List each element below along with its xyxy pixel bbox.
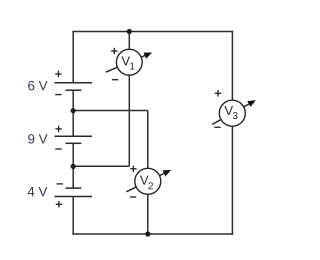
voltmeter V1 circle [116, 49, 142, 75]
voltmeter V3 circle [219, 100, 245, 126]
battery 4 V [55, 188, 93, 196]
voltmeter V1 arrow line [106, 55, 146, 72]
voltmeter V3 minus sign [214, 126, 220, 128]
wire left bus segment between 6 V and 9 V [72, 90, 74, 136]
voltmeter V2 label [140, 176, 149, 185]
wire bottom bus [72, 233, 233, 235]
battery 6 V value label [28, 81, 47, 90]
voltmeter V3 plus sign [215, 90, 221, 96]
voltmeter V1 plus sign [111, 48, 117, 54]
voltmeter V1 [106, 48, 152, 80]
voltmeter V3 [212, 90, 256, 127]
voltmeter V2 arrowhead [163, 170, 172, 177]
node junction dot between 6 V and 9 V [71, 108, 76, 113]
battery 4 V value label [28, 187, 48, 196]
voltmeter V2 [126, 166, 171, 197]
battery 9 V value label [28, 134, 47, 143]
wire left bus segment between 9 V and 4 V [72, 143, 74, 188]
voltmeter V1 arrowhead [144, 53, 153, 59]
battery 6 V minus sign [55, 94, 61, 96]
voltmeter V2 circle [135, 168, 161, 194]
battery 9 V [55, 136, 93, 143]
wire V1 branch horizontal to node between 9 V and 4 V [73, 165, 129, 167]
battery 6 V [55, 83, 93, 90]
battery 9 V minus sign [55, 148, 61, 150]
wire left bus lower segment [72, 197, 74, 235]
voltmeter V2 plus sign [130, 166, 136, 172]
battery 9 V plus sign [55, 126, 61, 132]
voltmeter V3 label [224, 106, 233, 115]
wire V2 branch vertical [147, 111, 149, 235]
voltmeter V2 arrow line [126, 173, 165, 192]
voltmeter V3 arrowhead [247, 100, 256, 107]
node junction dot between 9 V and 4 V [71, 164, 76, 169]
wire V2 branch horizontal from node between 6 V and 9 V [73, 110, 148, 112]
voltmeter V1 minus sign [112, 79, 118, 81]
voltmeter V2 minus sign [130, 196, 136, 198]
wire right bus [231, 31, 233, 235]
node junction dot on top bus [127, 29, 132, 34]
battery 6 V plus sign [55, 71, 61, 77]
wire left bus upper segment [72, 31, 74, 83]
wire top bus [72, 31, 233, 33]
node junction dot on bottom bus [145, 231, 150, 236]
battery 4 V minus sign [57, 183, 63, 185]
voltmeter V1 label [121, 57, 130, 66]
voltmeter V3 arrow line [212, 104, 250, 125]
wire V1 branch vertical [128, 32, 130, 167]
battery 4 V plus sign [56, 201, 62, 207]
